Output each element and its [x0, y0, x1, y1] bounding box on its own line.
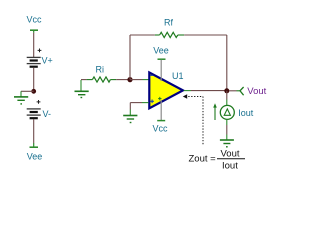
wire top rail left of Rf [130, 34, 155, 36]
label V- [43, 109, 52, 119]
label Ri [96, 64, 105, 74]
node Vee label [27, 152, 43, 162]
op-amp bottom supply pin (Vcc) [153, 100, 169, 134]
wire node to Iout source [226, 91, 228, 106]
positive supply + mark [158, 97, 161, 100]
svg-text:Iout: Iout [222, 160, 238, 171]
svg-text:Vcc: Vcc [153, 124, 169, 134]
Vout terminal crow-foot [240, 87, 244, 95]
svg-text:Ri: Ri [96, 64, 105, 74]
label Rf [164, 18, 173, 28]
svg-text:Vout: Vout [247, 86, 266, 97]
wire top rail right of Rf [184, 34, 227, 36]
battery V- plus sign [37, 100, 41, 104]
current direction arrow [213, 103, 217, 120]
label U1 [172, 71, 184, 81]
wire junction to left ground [21, 90, 34, 92]
svg-text:Rf: Rf [164, 18, 173, 28]
annotation dashed line vertical down to formula [202, 97, 204, 146]
node Vout label [247, 86, 266, 97]
battery V+ [27, 57, 41, 66]
op-amp U1 [149, 73, 183, 109]
label Iout [238, 108, 254, 118]
ground (at Ri input) [75, 80, 89, 98]
svg-text:Zout =: Zout = [189, 154, 217, 165]
pin + (non-inverting) [150, 100, 154, 104]
resistor Ri [87, 77, 117, 82]
wire V- battery to Vee terminal [33, 119, 35, 143]
current source Iout [220, 105, 234, 119]
svg-text:Iout: Iout [238, 108, 254, 118]
annotation dashed line horizontal [188, 96, 203, 98]
Vcc power terminal [30, 30, 38, 33]
output node junction [224, 88, 229, 93]
svg-text:U1: U1 [172, 71, 184, 81]
wire ground to Ri [81, 79, 87, 81]
ground (non-inverting input) [123, 110, 137, 123]
label V+ [42, 56, 53, 66]
junction dot between batteries [31, 89, 36, 94]
resistor Rf [155, 32, 184, 37]
wire node to Vout terminal [229, 90, 240, 92]
wire node to op-amp minus input [130, 79, 149, 81]
wire Ri to inverting node [116, 79, 130, 81]
wire non-inverting input to ground [130, 103, 148, 110]
pin - (inverting) [150, 74, 153, 76]
Vee power terminal [30, 143, 39, 147]
svg-text:V+: V+ [42, 56, 53, 66]
node Vcc label [27, 15, 43, 25]
ground (Iout) [220, 140, 234, 147]
formula Zout = Vout / Iout [189, 148, 246, 171]
wire V+ battery to junction [33, 68, 35, 92]
ground (left, between batteries) [14, 91, 28, 104]
wire Vcc to V+ battery [33, 33, 35, 57]
svg-text:Vee: Vee [153, 46, 169, 56]
op-amp top supply pin (Vee) [153, 46, 169, 81]
wire feedback riser (right) down to output node [226, 35, 228, 91]
svg-text:Vee: Vee [27, 152, 43, 162]
wire Iout source to ground [226, 119, 228, 139]
wire op-amp output [184, 90, 227, 92]
junction node at inverting input [127, 77, 132, 82]
svg-text:V-: V- [43, 109, 52, 119]
svg-text:Vcc: Vcc [27, 15, 43, 25]
annotation arrowhead at op-amp output [183, 94, 187, 98]
wire feedback riser (left) [129, 35, 131, 80]
battery V- [27, 109, 41, 118]
svg-text:Vout: Vout [221, 148, 240, 159]
battery V+ plus sign [38, 49, 42, 53]
